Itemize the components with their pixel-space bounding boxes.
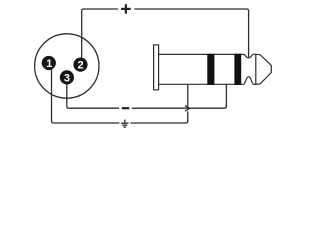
TRS plug neck groove [241,54,256,84]
crossover hop on cold wire at ground wire crossing [185,106,190,112]
TRS plug insulator band 1 [207,54,214,85]
svg-text:2: 2 [77,60,83,72]
svg-text:1: 1 [46,58,52,70]
TRS plug insulator band 2 [234,54,241,85]
XLR pin 1 [42,56,56,70]
wire ground: XLR pin1 to plug sleeve (lowest run) [52,68,188,123]
TRS plug barrel (sleeve body) [159,54,242,84]
ground symbol on ground wire [121,120,128,128]
XLR pin 3 [60,70,74,84]
wire hot: XLR pin2 to plug tip (top run) [82,9,249,58]
wire cold: XLR pin3 to plug ring (middle bottom run) [67,84,227,108]
plus symbol on hot wire [121,4,131,13]
svg-text:3: 3 [64,72,70,84]
TRS plug flange [154,45,159,90]
XLR pin 2 [73,58,87,72]
minus symbol on cold wire [122,107,130,109]
TRS plug tip cone [256,54,271,84]
XLR connector shell [35,34,99,98]
